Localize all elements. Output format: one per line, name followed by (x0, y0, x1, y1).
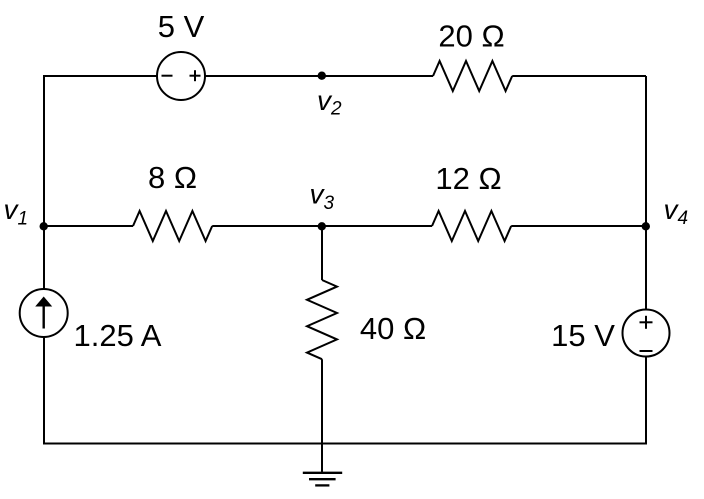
svg-text:v3: v3 (310, 179, 335, 215)
svg-text:5 V: 5 V (158, 9, 205, 44)
svg-text:20 Ω: 20 Ω (438, 19, 504, 54)
svg-text:v4: v4 (664, 194, 689, 229)
svg-text:12 Ω: 12 Ω (435, 161, 501, 196)
svg-text:40 Ω: 40 Ω (360, 311, 426, 346)
svg-text:v1: v1 (4, 194, 29, 230)
svg-text:v2: v2 (317, 85, 342, 120)
svg-text:8 Ω: 8 Ω (148, 160, 197, 195)
svg-text:15 V: 15 V (551, 318, 615, 353)
svg-text:1.25 A: 1.25 A (74, 318, 162, 353)
